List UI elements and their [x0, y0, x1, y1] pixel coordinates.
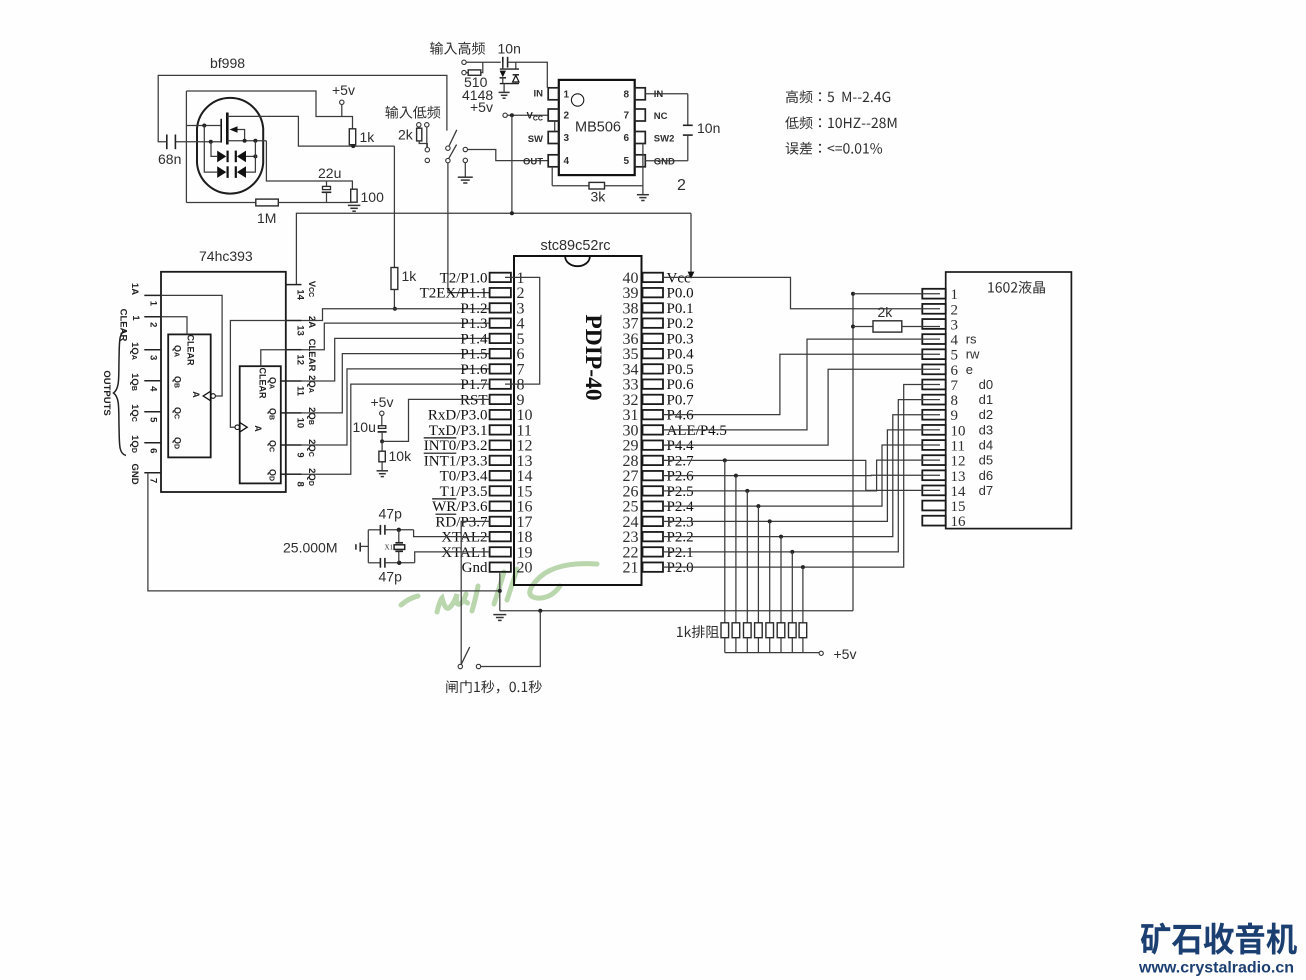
- MCU pin 14 box: [490, 471, 511, 480]
- 74hc393 counter block 2: [240, 366, 281, 483]
- wire pullup bottom: [393, 290, 395, 309]
- svg-text:d4: d4: [979, 438, 993, 453]
- MCU pin 4 box: [490, 318, 511, 327]
- MCU notch: [565, 257, 590, 267]
- wire P2.5 to d5: [663, 460, 940, 491]
- svg-text:6: 6: [148, 448, 159, 453]
- MCU pin 34 box: [643, 364, 664, 373]
- ground (RST): [381, 462, 383, 471]
- svg-text:INT1/P3.3: INT1/P3.3: [424, 453, 488, 469]
- svg-text:e: e: [966, 362, 973, 377]
- resistor network R1: [721, 623, 729, 638]
- wire diode row2 right to source rail: [246, 141, 255, 172]
- svg-text:4: 4: [148, 386, 159, 392]
- wire source to decoupling: [266, 141, 352, 190]
- svg-text:XTAL1: XTAL1: [441, 545, 487, 561]
- wire RD/P3.7 to gate switch: [461, 521, 489, 664]
- wire P2.7 drop to resistor network: [724, 460, 726, 622]
- wire resistor network bus: [725, 652, 820, 654]
- label gate time (zhamen): [446, 680, 542, 693]
- wire gate switch drop: [480, 611, 540, 667]
- label shuru gaopin (high freq input): [430, 42, 485, 55]
- wire P2.7 to d7: [663, 460, 940, 490]
- wire MB506 pin8 IN to 10n: [645, 93, 688, 95]
- junction source rail A: [243, 139, 247, 143]
- svg-text:A: A: [253, 425, 263, 432]
- svg-text:4: 4: [564, 156, 570, 167]
- svg-text:XTAL2: XTAL2: [441, 530, 487, 546]
- junction P2.1 pull-up: [790, 550, 794, 554]
- svg-text:1: 1: [951, 287, 959, 303]
- MCU pin 13 box: [490, 456, 511, 465]
- logo crystalradio: [1141, 923, 1297, 955]
- junction 2k contrast: [851, 325, 855, 329]
- wire 74hc393 GND to MCU ground: [148, 473, 500, 591]
- MCU pin 9 box: [490, 395, 511, 404]
- label 1k network (paizu): [677, 625, 719, 638]
- resistor 10k: [381, 441, 383, 451]
- wire clear1 to block1: [161, 317, 187, 335]
- svg-text:1: 1: [564, 90, 570, 101]
- LCD pin 2 box: [922, 304, 945, 314]
- junction +5v feed: [510, 113, 514, 117]
- junction diode row1 right: [253, 154, 257, 158]
- wire MB506 pin5 GND to 10n: [645, 160, 688, 162]
- MB506 pin1 orientation circle: [571, 94, 583, 106]
- svg-text:13: 13: [951, 469, 966, 485]
- svg-text:14: 14: [295, 289, 306, 300]
- wire crystal to XTAL2: [414, 530, 490, 537]
- MB506 pin4 box: [548, 155, 559, 167]
- svg-text:CLEAR: CLEAR: [258, 368, 268, 399]
- MCU pin 22 box: [643, 547, 664, 556]
- svg-text:15: 15: [951, 499, 966, 515]
- resistor 2k contrast: [853, 326, 873, 328]
- svg-text:+5v: +5v: [470, 99, 493, 115]
- MCU pin 39 box: [643, 288, 664, 297]
- svg-text:rs: rs: [966, 332, 977, 347]
- MCU pin 38 box: [643, 303, 664, 312]
- svg-text:10n: 10n: [697, 120, 720, 136]
- LCD pin 9 box: [922, 410, 945, 420]
- svg-text:CLEAR: CLEAR: [118, 309, 129, 342]
- LCD pin 15 box: [922, 501, 945, 511]
- MCU pin 5 box: [490, 334, 511, 343]
- transistor Q1 substrate arrow: [230, 126, 238, 132]
- svg-text:16: 16: [951, 514, 967, 530]
- wire 10n to MB506 IN: [508, 62, 548, 88]
- wire rail drop to MCU Vcc: [690, 213, 692, 272]
- wire 2A internal to block2 clock: [230, 321, 285, 428]
- svg-text:2k: 2k: [398, 127, 414, 143]
- svg-text:rw: rw: [966, 347, 980, 362]
- ground (MCU pin20): [493, 614, 506, 616]
- note high freq range: [786, 90, 890, 103]
- wire gate2 loop to 1k top: [186, 91, 352, 129]
- svg-text:12: 12: [295, 354, 306, 365]
- LCD pin 4 box: [922, 334, 945, 344]
- MCU pin 11 box: [490, 425, 511, 434]
- IC U2 MB506 body: [559, 80, 635, 175]
- junction RST divider: [380, 439, 384, 443]
- MCU pin 16 box: [490, 501, 511, 510]
- resistor 1k pullup: [391, 268, 398, 290]
- MB506 pin3 box: [548, 132, 559, 144]
- junction P2.5 pull-up: [745, 489, 749, 493]
- svg-text:www.crystalradio.cn: www.crystalradio.cn: [1138, 960, 1294, 977]
- MCU pin 12 box: [490, 440, 511, 449]
- wire terminal B down: [426, 127, 428, 147]
- svg-text:5: 5: [148, 417, 159, 423]
- svg-text:Vcc: Vcc: [667, 270, 691, 286]
- svg-text:11: 11: [951, 439, 965, 455]
- IC U3 74hc393 outer box: [161, 272, 286, 492]
- MCU pin 20 box: [490, 562, 511, 571]
- node input high terminal: [462, 60, 466, 64]
- junction gnd / 74hc393 wire: [498, 589, 502, 593]
- MCU pin 21 box: [643, 562, 664, 571]
- svg-text:14: 14: [951, 484, 967, 500]
- MCU pin 40 box: [643, 273, 664, 282]
- IC U1 MCU body: [514, 256, 642, 585]
- svg-text:P2.2: P2.2: [667, 530, 694, 546]
- resistor network R4: [755, 623, 763, 638]
- svg-text:P2.4: P2.4: [667, 499, 695, 515]
- resistor 510: [466, 72, 468, 74]
- MCU pin 31 box: [643, 410, 664, 419]
- switch SW2 gate time contacts: [476, 664, 480, 668]
- wire P2.3 to d3: [663, 430, 940, 522]
- svg-text:+5v: +5v: [332, 82, 355, 98]
- note error: [786, 142, 883, 155]
- svg-text:P0.7: P0.7: [667, 392, 695, 408]
- wire drain node: [267, 116, 395, 146]
- svg-text:2k: 2k: [878, 304, 894, 320]
- overline RD: [435, 513, 456, 515]
- svg-text:d0: d0: [979, 377, 993, 392]
- wire Vcc to LCD pin2: [663, 277, 940, 308]
- wire P2.0 to d0: [663, 384, 940, 567]
- svg-text:1: 1: [148, 301, 159, 307]
- protection diodes row 1: [217, 151, 226, 163]
- svg-text:7: 7: [623, 111, 629, 122]
- svg-text:P2.5: P2.5: [667, 484, 694, 500]
- wire LCD pin1: [853, 293, 940, 295]
- svg-text:CLEAR: CLEAR: [306, 339, 317, 372]
- svg-text:2: 2: [951, 302, 959, 318]
- svg-text:+5v: +5v: [371, 394, 394, 410]
- svg-text:1k: 1k: [360, 129, 376, 145]
- junction P2.4 pull-up: [756, 504, 760, 508]
- svg-text:GND: GND: [654, 157, 675, 168]
- junction on gate2 lead: [202, 124, 206, 128]
- svg-text:11: 11: [295, 386, 306, 397]
- LCD pin 11 box: [922, 440, 945, 450]
- 74hc393 left pin stubs: [144, 294, 161, 296]
- svg-text:2A: 2A: [306, 316, 317, 328]
- svg-text:SW: SW: [528, 134, 543, 145]
- svg-text:P0.5: P0.5: [667, 362, 694, 378]
- junction P2.3 pull-up: [768, 519, 772, 523]
- wire diode row1 right: [246, 155, 255, 157]
- junction source rail B: [253, 139, 257, 143]
- junction P2.0 pull-up: [801, 565, 805, 569]
- wire P2.5 drop to resistor network: [746, 491, 748, 623]
- MCU pin 7 box: [490, 364, 511, 373]
- svg-text:3k: 3k: [591, 189, 607, 205]
- MCU pin 24 box: [643, 517, 664, 526]
- resistor 3k: [551, 167, 553, 186]
- wire P2.0 drop to resistor network: [802, 567, 804, 623]
- wire P2.3 drop to resistor network: [769, 521, 771, 622]
- transistor Q1 gate1 lead: [175, 141, 221, 143]
- resistor network R6: [777, 623, 785, 638]
- svg-text:1k: 1k: [402, 268, 418, 284]
- LCD pin 1 box: [922, 289, 945, 299]
- LCD pin 7 box: [922, 380, 945, 390]
- svg-text:d7: d7: [979, 483, 993, 498]
- svg-text:Gnd: Gnd: [462, 560, 488, 576]
- svg-text:P1.2: P1.2: [460, 301, 487, 317]
- MCU pin 25 box: [643, 501, 664, 510]
- node input low terminal A: [417, 123, 421, 127]
- wire gate2 left vertical: [185, 91, 187, 203]
- node input high terminal 2: [462, 70, 466, 74]
- wire Gnd pin down: [499, 572, 501, 611]
- junction pullup on P1.2 wire: [393, 307, 397, 311]
- svg-text:P4.6: P4.6: [667, 408, 695, 424]
- resistor 2k (input): [417, 128, 422, 141]
- resistor network R2: [732, 623, 740, 638]
- switch SW1 lever pole2: [449, 145, 457, 159]
- svg-text:5: 5: [951, 348, 959, 364]
- IC LCD1 1602 body: [946, 272, 1072, 529]
- wire switch pole2 to MB506 OUT: [468, 150, 549, 161]
- svg-text:IN: IN: [534, 89, 544, 100]
- svg-text:1A: 1A: [129, 283, 140, 295]
- junction crystal bottom: [397, 561, 401, 565]
- wire bf998 out down to pullup: [393, 146, 395, 267]
- resistor network R7: [789, 623, 797, 638]
- LCD pin 14 box: [922, 485, 945, 495]
- wire CLEAR2 to P1.3: [302, 323, 490, 350]
- svg-text:SW2: SW2: [654, 134, 675, 145]
- MCU pin 3 box: [490, 303, 511, 312]
- svg-text:bf998: bf998: [210, 55, 245, 71]
- wire Vcc rail: [296, 213, 691, 284]
- svg-text:6: 6: [951, 363, 959, 379]
- svg-text:+5v: +5v: [834, 646, 857, 662]
- 74hc393 right pin stubs: [286, 284, 302, 286]
- svg-text:d6: d6: [979, 468, 993, 483]
- capacitor 10n input plates: [502, 57, 504, 68]
- wire 2QD to P1.7: [302, 384, 490, 474]
- junction gate switch drop: [538, 609, 542, 613]
- svg-text:3: 3: [148, 355, 159, 360]
- svg-text:13: 13: [295, 325, 306, 336]
- capacitor 10n output: [687, 94, 689, 126]
- MCU pin 30 box: [643, 425, 664, 434]
- node input low terminal B: [425, 123, 429, 127]
- note low freq range: [785, 116, 896, 129]
- wire switch common to T2EX/P1.1: [448, 163, 490, 293]
- wire block2 outputs to pins: [281, 380, 286, 382]
- wire +5v to MB506 Vcc pin2: [507, 114, 548, 116]
- svg-text:ALE/P4.5: ALE/P4.5: [667, 423, 727, 439]
- transistor Q1 drain lead: [227, 115, 267, 117]
- capacitor 47p bottom: [368, 562, 380, 564]
- wire P2.2 drop to resistor network: [780, 537, 782, 623]
- wire ALE/P4.5 to rs: [663, 339, 940, 430]
- label 1602 LCD: [988, 281, 1045, 294]
- svg-text:P2.3: P2.3: [667, 514, 694, 530]
- svg-text:2: 2: [564, 111, 570, 122]
- svg-text:12: 12: [951, 454, 966, 470]
- ground (MB506): [637, 194, 649, 196]
- ground (source network): [348, 204, 361, 206]
- svg-text:P1.3: P1.3: [460, 316, 487, 332]
- wire MB506 SW tie to Vcc: [554, 121, 556, 132]
- MCU pin 19 box: [490, 547, 511, 556]
- switch SW2 lever: [461, 647, 470, 665]
- resistor network R8: [799, 623, 807, 638]
- svg-text:stc89c52rc: stc89c52rc: [540, 238, 610, 254]
- label shuru dipin (low freq input): [385, 106, 440, 119]
- LCD pin 3 box: [922, 319, 945, 329]
- LCD pin 12 box: [922, 455, 945, 465]
- svg-text:68n: 68n: [158, 151, 181, 167]
- svg-text:d3: d3: [979, 422, 993, 437]
- svg-text:9: 9: [295, 452, 306, 457]
- svg-text:P2.7: P2.7: [667, 453, 695, 469]
- LCD pin 16 box: [922, 516, 945, 526]
- resistor 100 (source): [351, 189, 357, 202]
- power +5v terminal (network): [819, 651, 823, 655]
- ground (below switch pole2): [464, 163, 466, 177]
- MCU pin 32 box: [643, 395, 664, 404]
- svg-text:NC: NC: [654, 111, 668, 122]
- svg-text:P1.6: P1.6: [460, 362, 488, 378]
- svg-text:10u: 10u: [353, 419, 376, 435]
- svg-text:7: 7: [148, 478, 159, 483]
- switch SW1 pole2 contacts: [463, 147, 467, 151]
- resistor network R5: [766, 623, 774, 638]
- wire P2.1 drop to resistor network: [791, 552, 793, 623]
- MCU pin 15 box: [490, 486, 511, 495]
- protection diodes row 2: [217, 166, 226, 178]
- MB506 pin8 box: [635, 88, 646, 100]
- svg-text:P0.4: P0.4: [667, 347, 695, 363]
- transistor Q1 gate2 lead: [186, 125, 221, 127]
- crystal left tick: [355, 544, 357, 550]
- MB506 pin1 box: [548, 88, 559, 100]
- wire ground bus to LCD pin1 riser: [500, 610, 853, 612]
- MB506 pin6 box: [635, 132, 646, 144]
- junction on gate1 lead: [209, 140, 213, 144]
- MCU pin 6 box: [490, 349, 511, 358]
- MCU pin 23 box: [643, 532, 664, 541]
- MCU pin 10 box: [490, 410, 511, 419]
- wire 2QA to P1.4: [302, 338, 490, 381]
- svg-text:8: 8: [295, 482, 306, 487]
- svg-text:10k: 10k: [389, 448, 413, 464]
- MCU pin 35 box: [643, 349, 664, 358]
- svg-text:P0.3: P0.3: [667, 331, 694, 347]
- MCU pin 26 box: [643, 486, 664, 495]
- switch SW1 lever pole1: [449, 130, 457, 147]
- LCD pin 10 box: [922, 425, 945, 435]
- transistor Q1 channel bar: [226, 113, 229, 145]
- wire P2.4 drop to resistor network: [757, 506, 759, 623]
- overline WR: [432, 498, 456, 500]
- MB506 pin7 box: [635, 109, 646, 121]
- svg-text:21: 21: [623, 560, 639, 577]
- svg-text:7: 7: [951, 378, 959, 394]
- svg-text:9: 9: [951, 408, 959, 424]
- svg-text:TxD/P3.1: TxD/P3.1: [429, 423, 488, 439]
- wire crystal to XTAL1: [415, 552, 490, 563]
- svg-text:4: 4: [951, 333, 959, 349]
- svg-text:1M: 1M: [257, 210, 276, 226]
- wire diode row2 left to gate2: [204, 126, 217, 173]
- svg-text:10: 10: [295, 418, 306, 429]
- MCU pin 1 box: [490, 273, 511, 282]
- svg-text:P0.1: P0.1: [667, 301, 694, 317]
- capacitor 22u: [323, 186, 331, 189]
- wire 2k bottom: [419, 141, 427, 148]
- svg-text:P1.4: P1.4: [460, 331, 488, 347]
- svg-text:47p: 47p: [379, 569, 403, 585]
- wire 2QB to P1.5: [302, 354, 490, 413]
- svg-text:d1: d1: [979, 392, 993, 407]
- wire 68n left to top loop: [158, 75, 447, 141]
- wire 2A to P1.2: [302, 309, 490, 321]
- block1 clock wedge: [203, 391, 211, 401]
- wire RST node to pin9: [382, 399, 490, 441]
- svg-text:P2.6: P2.6: [667, 469, 695, 485]
- switch SW1 input selector pole1 contacts: [446, 146, 450, 150]
- svg-text:PDIP-40: PDIP-40: [580, 314, 606, 400]
- MCU pin 37 box: [643, 318, 664, 327]
- svg-text:10: 10: [951, 423, 966, 439]
- svg-text:P0.0: P0.0: [667, 286, 694, 302]
- svg-text:MB506: MB506: [575, 120, 621, 136]
- wire internal T2 to P1.7 loop: [505, 277, 540, 384]
- wire P2.1 to d1: [663, 400, 940, 552]
- wire P2.2 to d2: [663, 415, 940, 537]
- junction P2.7 pull-up: [723, 458, 727, 462]
- svg-text:P0.2: P0.2: [667, 316, 694, 332]
- svg-text:INT0/P3.2: INT0/P3.2: [424, 438, 488, 454]
- svg-text:47p: 47p: [379, 506, 403, 522]
- svg-text:IN: IN: [654, 89, 664, 100]
- svg-text:P4.4: P4.4: [667, 438, 695, 454]
- node switch contact C: [425, 148, 429, 152]
- MCU pin 27 box: [643, 471, 664, 480]
- MCU pin 8 box: [490, 379, 511, 388]
- svg-text:74hc393: 74hc393: [199, 248, 253, 264]
- svg-text:T2/P1.0: T2/P1.0: [440, 270, 488, 286]
- svg-text:P0.6: P0.6: [667, 377, 695, 393]
- svg-text:5: 5: [623, 156, 629, 167]
- svg-text:25.000M: 25.000M: [283, 540, 337, 556]
- junction 1k bottom: [351, 144, 355, 148]
- svg-text:P1.7: P1.7: [460, 377, 488, 393]
- wire caps common rail: [367, 530, 369, 563]
- wire ground riser to LCD pin1: [852, 294, 854, 611]
- MCU pin 33 box: [643, 379, 664, 388]
- svg-text:3: 3: [951, 317, 959, 333]
